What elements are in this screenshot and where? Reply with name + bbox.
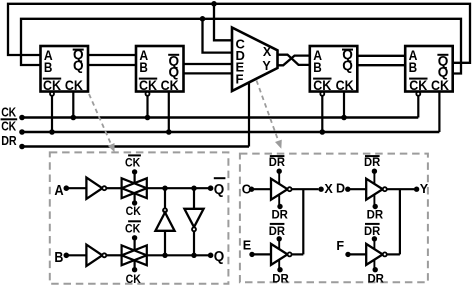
pin: FF1 CK̄ bubble [50,92,54,96]
wire: C to tri-state [252,188,272,190]
flip-flop FF1 (dual-edge latch block) [41,46,89,92]
svg-text:DR: DR [269,225,286,238]
wire: mux X output crossing to FF3 B [278,55,310,65]
svg-text:F: F [236,72,244,87]
svg-text:Y: Y [262,59,271,73]
bus label CK-bar overline [1,118,18,120]
flip-flop FF2 (dual-edge latch block) [136,46,184,92]
transmission gate TG2 (clocked by CK̄/CK) [122,245,147,265]
wire: U9 output joins Y net [387,253,400,255]
svg-text:CK: CK [409,78,427,93]
wire: outer rail down to mux input C [214,4,232,41]
pin: U9 enable DR [373,267,378,272]
svg-text:DR: DR [269,156,286,169]
svg-text:DR: DR [364,225,381,238]
wire: FF4 CK̄ pin to CK bus end [417,96,419,118]
svg-text:DR: DR [367,273,384,286]
node Q (output terminal of detail box 1) [208,253,214,259]
inverter U2 (input A) [86,178,102,199]
pin: U7 enable DR̄ [277,236,282,241]
wire: inverter to transmission gate [106,187,121,189]
pin: TG2 CK̄ gate [134,239,136,251]
wire: FF4 CK pin to CK-bar bus end [438,92,440,133]
wire: FF3 Q̄ to FF4 A [357,55,405,57]
wire: TG1 to Q̄ output [147,187,208,189]
wire: mux Y output crossing to FF3 A [278,56,310,66]
node: latch junction 2b [191,253,196,258]
svg-text:X: X [263,45,272,59]
svg-text:CK: CK [313,78,331,93]
mux U1 (2:1 selector, inputs C D E F, outputs X Y) [232,28,278,92]
inverter U4 (latch, pointing up) [163,208,167,212]
svg-text:A: A [54,183,64,199]
wire: F branch tie to Y [399,189,401,254]
pin: U9 enable DR̄ [372,236,377,241]
wire: E to tri-state [252,253,271,255]
tri-state inverter U6 (input C, enabled by DR̄/DR) [271,179,288,200]
svg-text:Q: Q [342,57,353,73]
flip-flop FF3 (dual-edge latch block) [310,46,358,92]
node: latch junction 1a [162,186,167,191]
svg-text:CK: CK [336,78,354,93]
svg-text:Q: Q [214,182,225,198]
svg-text:CK: CK [431,78,449,93]
svg-text:B: B [409,59,418,75]
wire: FF2 Q̄ to mux input E [184,63,232,65]
tri-state inverter U8 (input D, enabled by DR̄/DR) [366,179,383,200]
wire: latch inverter up stub [164,188,166,208]
svg-text:X: X [324,182,333,196]
wire: FF2 CK̄ pin to CK bus [146,96,148,118]
svg-text:B: B [44,59,53,75]
inverter U5 (latch, pointing down) [184,209,203,227]
node Y (output terminal) [414,187,419,192]
wire: U7 output joins X net [292,253,304,255]
pin: U8 enable DR [373,204,378,209]
svg-text:B: B [139,59,148,75]
wire: FF1 Q to FF2 B [88,64,136,66]
label CK̄ above TG2 [128,220,141,222]
svg-text:CK: CK [161,78,179,93]
wire: mux DR pin down to DR bus end [248,82,250,147]
pin: FF4 CK̄ bubble [416,92,420,96]
node: junction FF1 CK̄ on CK-bar bus [49,129,55,135]
node: CK bus terminal [19,115,25,121]
svg-text:E: E [243,239,251,253]
wire: D to tri-state [348,188,366,190]
detail box 2 (mux internal circuit, dashed border) [240,154,428,283]
node: latch junction 2a [162,253,167,258]
node: junction on outer rail feeding mux input C [211,1,217,7]
wire: CK-bar bus [22,131,439,133]
svg-text:Y: Y [420,182,429,196]
wire: feedback Q(FF4) to B(FF1) via top inner rail [21,19,461,74]
wire: FF1 CK̄ pin to CK-bar bus [51,96,53,132]
node: junction FF2 CK̄ on CK bus [145,115,151,121]
wire: latch inverter down stub [193,188,195,209]
pin: FF2 CK̄ bubble [146,92,150,96]
svg-text:CK: CK [125,157,141,170]
svg-text:DR: DR [271,208,288,221]
transmission gate TG1 (clocked by CK̄/CK) [122,178,147,198]
svg-text:F: F [336,239,344,253]
svg-text:DR: DR [1,134,17,148]
svg-text:CK: CK [1,106,16,120]
wire: FF3 CK̄ pin to CK-bar bus [321,96,323,132]
pin: TG1 CK̄ gate [134,174,136,184]
wire: FF1 Q̄ to FF2 A [88,54,136,56]
wire: A to inverter [66,187,86,189]
wire: FF1 CK pin to CK bus [72,92,74,118]
label DR̄ above U9 [365,223,380,225]
svg-text:CK: CK [125,223,141,236]
label DR̄ above U7 [270,223,285,225]
label CK̄ above TG1 [128,154,141,156]
node: junction FF3 CK on CK bus [341,115,347,121]
node: CK-bar bus terminal [19,129,25,135]
flip-flop FF4 (dual-edge latch block) [405,46,453,92]
wire: DR bus [22,145,249,147]
pin: TG2 CK gate [134,260,136,269]
wire: FF3 CK pin to CK bus [343,92,345,118]
svg-text:DR: DR [367,208,384,221]
tri-state inverter U9 (input F, enabled by DR̄/DR) [366,244,383,265]
node Q̄ (output terminal of detail box 1) [208,185,214,191]
svg-text:DR: DR [364,156,381,169]
wire: CK bus [22,116,418,118]
tri-state inverter U7 (input E, enabled by DR̄/DR) [271,244,288,265]
node X (output terminal) [318,187,323,192]
wire: feedback Q̄(FF4) to A(FF1) via top outer rail [8,4,470,63]
pin: FF3 CK̄ bubble [320,92,324,96]
svg-text:CK: CK [126,205,142,218]
svg-text:B: B [313,59,322,75]
wire: U8 output to Y [387,188,414,190]
pin: U8 enable DR̄ [372,169,377,174]
svg-text:Q: Q [214,249,225,265]
wire: TG2 to Q output [147,254,208,256]
pin: U6 enable DR [277,204,282,209]
wire: B to inverter [66,254,86,256]
node: latch junction 1b [191,186,196,191]
label DR̄ above U6 [270,155,285,157]
node: junction FF2 CK on CK-bar bus [166,129,172,135]
svg-text:B: B [54,250,63,266]
wire: F to tri-state [348,253,366,255]
svg-text:CK: CK [126,273,142,286]
wire: FF2 Q to mux input F [184,72,232,74]
svg-text:CK: CK [43,78,61,93]
inverter U3 (input B) [86,245,102,266]
node: junction on inner rail feeding mux input D [200,16,206,22]
svg-text:CK: CK [65,78,83,93]
node: junction FF3 CK̄ on CK-bar bus [320,129,326,135]
pin: U7 enable DR [277,267,282,272]
wire: inner rail down to mux input D [203,19,232,53]
detail box 1 (flip-flop internal circuit, dashed border) [50,152,229,283]
wire: U6 output to X [292,188,319,190]
svg-text:D: D [336,182,345,196]
pin: U6 enable DR̄ [277,169,282,174]
pin: TG1 CK gate [134,193,136,202]
svg-text:DR: DR [272,273,289,286]
wire: E branch tie to X [302,189,304,254]
callout arrow: mux detail to right dashed box [257,81,279,142]
wire: inverter to transmission gate [106,254,121,256]
wire: FF2 CK pin to CK-bar bus [168,92,170,133]
svg-text:CK: CK [1,120,16,134]
node: junction FF1 CK on CK bus [71,115,77,121]
svg-text:Q: Q [73,57,84,73]
node: DR bus terminal [19,144,25,150]
label DR̄ above U8 [365,155,380,157]
svg-text:CK: CK [139,78,157,93]
callout arrow: FF1 detail to left dashed box [89,94,112,145]
wire: FF3 Q to FF4 B [357,64,405,66]
